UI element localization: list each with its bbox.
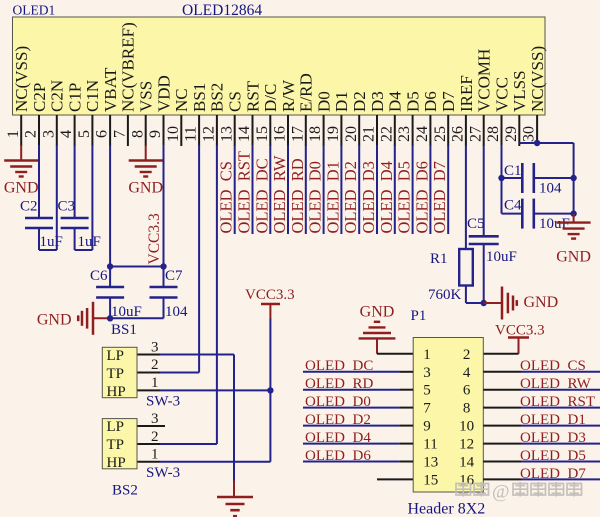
svg-text:13: 13 bbox=[423, 455, 438, 471]
pin 27 stub bbox=[483, 115, 485, 146]
pin 26 stub bbox=[465, 115, 467, 146]
wire pin9 down to C7 bbox=[163, 145, 165, 287]
svg-text:24: 24 bbox=[414, 126, 431, 142]
svg-text:1: 1 bbox=[5, 130, 22, 138]
junction (pin9 rail) bbox=[160, 263, 166, 269]
svg-text:11: 11 bbox=[183, 126, 200, 141]
pin 30 stub bbox=[536, 115, 538, 146]
svg-text:OLED D3: OLED D3 bbox=[359, 161, 378, 233]
svg-text:GND: GND bbox=[37, 312, 72, 329]
wire pin 13 net bbox=[234, 145, 236, 234]
wire C1 right bbox=[534, 177, 574, 179]
svg-text:OLED RD: OLED RD bbox=[288, 158, 307, 233]
watermark zhihu bbox=[455, 482, 582, 497]
ground GND (pin 8) bbox=[145, 145, 147, 161]
svg-text:OLED RST: OLED RST bbox=[520, 394, 595, 410]
svg-text:4: 4 bbox=[58, 130, 75, 138]
svg-text:OLED D5: OLED D5 bbox=[520, 448, 586, 464]
wire pin6 down to C6 bbox=[109, 145, 111, 287]
wire P1 right row 7 bbox=[483, 461, 521, 463]
svg-text:SW-3: SW-3 bbox=[146, 394, 180, 410]
svg-text:OLED D7: OLED D7 bbox=[430, 161, 449, 233]
wire C4 left bbox=[502, 213, 523, 215]
svg-text:10: 10 bbox=[459, 419, 474, 435]
wire pin4 down bbox=[74, 145, 76, 218]
svg-text:GND: GND bbox=[360, 304, 395, 321]
wire P1 right row 5 bbox=[483, 425, 521, 427]
svg-text:BS1: BS1 bbox=[111, 322, 137, 338]
wire pin 21 net bbox=[376, 145, 378, 234]
svg-text:12: 12 bbox=[201, 126, 218, 142]
svg-text:C2N: C2N bbox=[48, 80, 67, 112]
svg-text:11: 11 bbox=[423, 437, 437, 453]
svg-text:2: 2 bbox=[463, 347, 471, 363]
svg-text:13: 13 bbox=[218, 126, 235, 142]
svg-text:4: 4 bbox=[463, 365, 471, 381]
pin 11 stub bbox=[198, 115, 200, 146]
svg-text:1: 1 bbox=[423, 347, 431, 363]
svg-text:OLED DC: OLED DC bbox=[252, 158, 271, 233]
svg-text:26: 26 bbox=[450, 126, 467, 142]
pin 19 stub bbox=[340, 115, 342, 146]
wire pin 23 net bbox=[412, 145, 414, 234]
pin 8 stub bbox=[145, 115, 147, 146]
ground GND (bottom, BS LP net) bbox=[217, 496, 253, 499]
wire P1 pin1 bbox=[377, 353, 413, 355]
svg-text:D2: D2 bbox=[350, 91, 369, 112]
capacitor C3 bbox=[61, 217, 89, 220]
svg-text:GND: GND bbox=[524, 294, 559, 311]
resistor R1 bbox=[459, 249, 473, 286]
svg-text:OLED D7: OLED D7 bbox=[520, 466, 586, 482]
wire C6 bottom bbox=[109, 298, 111, 319]
svg-text:D0: D0 bbox=[314, 91, 333, 112]
svg-text:TP: TP bbox=[107, 366, 125, 382]
svg-text:NC(VSS): NC(VSS) bbox=[12, 46, 31, 112]
wire pin 18 net bbox=[323, 145, 325, 234]
wire C3 bottom to pin5 bbox=[74, 228, 76, 250]
pin 1 stub bbox=[20, 115, 22, 146]
svg-text:1uF: 1uF bbox=[40, 234, 63, 250]
svg-text:16: 16 bbox=[272, 126, 289, 142]
svg-text:OLED D0: OLED D0 bbox=[306, 161, 325, 233]
svg-text:OLED CS: OLED CS bbox=[520, 358, 586, 374]
svg-text:15: 15 bbox=[423, 472, 438, 488]
svg-text:12: 12 bbox=[459, 437, 474, 453]
wire P1 left row 2 bbox=[303, 371, 400, 373]
svg-text:VCC3.3: VCC3.3 bbox=[146, 213, 163, 264]
wire pin3 down bbox=[56, 145, 58, 250]
svg-text:GND: GND bbox=[128, 180, 163, 197]
svg-text:Header 8X2: Header 8X2 bbox=[408, 501, 486, 517]
wire rail pin6-pin9 bbox=[110, 266, 163, 268]
svg-text:17: 17 bbox=[289, 126, 306, 142]
svg-text:C2: C2 bbox=[20, 199, 38, 215]
pin 23 stub bbox=[412, 115, 414, 146]
wire P1 right row 4 bbox=[483, 407, 521, 409]
wire right rail down bbox=[573, 143, 575, 214]
wire P1 right row 6 bbox=[483, 443, 521, 445]
svg-text:1: 1 bbox=[151, 375, 159, 391]
svg-text:P1: P1 bbox=[411, 308, 427, 324]
wire C7 bottom bbox=[163, 298, 165, 319]
pin 4 stub bbox=[74, 115, 76, 146]
svg-text:OLED D5: OLED D5 bbox=[395, 161, 414, 233]
svg-text:VCC: VCC bbox=[492, 77, 511, 112]
junction R1/C5 bbox=[481, 300, 487, 306]
pin 6 stub bbox=[109, 115, 111, 146]
wire P1 left row 7 bbox=[303, 461, 400, 463]
svg-text:NC: NC bbox=[172, 88, 191, 112]
svg-text:9: 9 bbox=[423, 419, 431, 435]
wire pin 24 net bbox=[429, 145, 431, 234]
svg-text:CS: CS bbox=[226, 91, 245, 112]
wire BS1 HP / VCC3.3 bbox=[160, 389, 270, 391]
junction C4 right bbox=[570, 210, 576, 216]
wire pin 16 net bbox=[287, 145, 289, 234]
wire pin26 to R1 bbox=[465, 145, 467, 249]
svg-text:OLED D2: OLED D2 bbox=[305, 412, 371, 428]
wire P1 left row 6 bbox=[303, 443, 400, 445]
wire pin29/30 rail bbox=[519, 142, 573, 144]
svg-text:R1: R1 bbox=[430, 251, 448, 267]
svg-text:18: 18 bbox=[307, 126, 324, 142]
header P1 body bbox=[413, 338, 483, 493]
ground GND (pin 1) bbox=[20, 145, 22, 161]
svg-text:C1: C1 bbox=[504, 163, 522, 179]
svg-text:VLSS: VLSS bbox=[510, 70, 529, 112]
pin 10 stub bbox=[180, 115, 182, 146]
svg-text:C7: C7 bbox=[165, 268, 183, 284]
svg-text:3: 3 bbox=[40, 130, 57, 138]
svg-text:C4: C4 bbox=[504, 198, 522, 214]
svg-text:OLED RW: OLED RW bbox=[270, 155, 289, 233]
capacitor C4 bbox=[521, 199, 524, 229]
wire pin28 down bbox=[501, 145, 503, 214]
pin 22 stub bbox=[394, 115, 396, 146]
svg-text:OLED CS: OLED CS bbox=[217, 161, 236, 233]
svg-text:10uF: 10uF bbox=[486, 249, 517, 265]
capacitor C5 bbox=[469, 235, 499, 238]
junction pin30 bbox=[534, 140, 540, 146]
wire pin2 down bbox=[38, 145, 40, 218]
wire pin11 to BS1 TP bbox=[198, 145, 200, 373]
wire pin5 down bbox=[91, 145, 93, 250]
pin 5 stub bbox=[91, 115, 93, 146]
svg-text:C5: C5 bbox=[467, 216, 485, 232]
wire to left ground bbox=[93, 317, 110, 319]
svg-text:6: 6 bbox=[463, 383, 471, 399]
svg-text:2: 2 bbox=[23, 130, 40, 138]
wire P1 left row 5 bbox=[303, 425, 400, 427]
svg-text:LP: LP bbox=[107, 419, 125, 435]
svg-text:D3: D3 bbox=[368, 91, 387, 112]
wire BS2 LP stub bbox=[137, 425, 165, 427]
pin 21 stub bbox=[376, 115, 378, 146]
svg-text:HP: HP bbox=[107, 455, 126, 471]
wire BS1 LP to ground bbox=[160, 354, 234, 356]
svg-text:@: @ bbox=[492, 482, 510, 503]
ground GND (left of C6) bbox=[92, 302, 95, 335]
wire P1 left row 4 bbox=[303, 407, 400, 409]
svg-text:OLED RD: OLED RD bbox=[305, 376, 373, 392]
svg-text:C6: C6 bbox=[90, 268, 108, 284]
pin 7 stub bbox=[127, 115, 129, 146]
svg-text:14: 14 bbox=[236, 126, 253, 142]
wire pin12 to BS2 TP bbox=[216, 145, 218, 444]
pin 17 stub bbox=[305, 115, 307, 146]
wire P1 right row 8 bbox=[483, 478, 521, 480]
junction (gnd rail) bbox=[107, 315, 113, 321]
svg-text:23: 23 bbox=[396, 126, 413, 142]
svg-text:760K: 760K bbox=[428, 287, 462, 303]
wire pin 22 net bbox=[394, 145, 396, 234]
ground GND (right rail) bbox=[573, 214, 575, 223]
wire C1 left bbox=[502, 177, 523, 179]
svg-text:NC(VBREF): NC(VBREF) bbox=[119, 22, 138, 112]
svg-text:OLED12864: OLED12864 bbox=[182, 2, 262, 19]
svg-text:6: 6 bbox=[94, 130, 111, 138]
pin 28 stub bbox=[501, 115, 503, 146]
svg-text:5: 5 bbox=[423, 383, 431, 399]
switch BS2 body bbox=[102, 419, 137, 469]
svg-text:NC(VSS): NC(VSS) bbox=[528, 46, 547, 112]
svg-text:OLED1: OLED1 bbox=[13, 3, 56, 18]
svg-text:8: 8 bbox=[463, 401, 471, 417]
svg-text:30: 30 bbox=[521, 126, 538, 142]
wire gnd rail bbox=[110, 317, 163, 319]
pin 2 stub bbox=[38, 115, 40, 146]
svg-text:20: 20 bbox=[343, 126, 360, 142]
svg-text:OLED RST: OLED RST bbox=[235, 151, 254, 234]
svg-text:D7: D7 bbox=[439, 91, 458, 112]
svg-text:VSS: VSS bbox=[137, 81, 156, 112]
svg-text:OLED D6: OLED D6 bbox=[412, 161, 431, 233]
svg-text:GND: GND bbox=[4, 180, 39, 197]
junction C1 right bbox=[570, 175, 576, 181]
svg-text:GND: GND bbox=[556, 249, 591, 266]
svg-text:14: 14 bbox=[459, 455, 475, 471]
svg-text:OLED D4: OLED D4 bbox=[377, 161, 396, 233]
svg-text:25: 25 bbox=[432, 126, 449, 142]
svg-text:1uF: 1uF bbox=[78, 234, 101, 250]
wire pin 15 net bbox=[269, 145, 271, 234]
connector OLED1 body bbox=[13, 17, 546, 115]
svg-text:7: 7 bbox=[423, 401, 431, 417]
svg-text:C3: C3 bbox=[58, 199, 76, 215]
wire pin 20 net bbox=[358, 145, 360, 234]
svg-text:C1N: C1N bbox=[83, 80, 102, 112]
wire pin 19 net bbox=[340, 145, 342, 234]
svg-text:3: 3 bbox=[151, 411, 159, 427]
pin 29 stub bbox=[518, 115, 520, 146]
junction pin28/C1 bbox=[498, 175, 504, 181]
svg-text:OLED D0: OLED D0 bbox=[305, 394, 371, 410]
pin 13 stub bbox=[234, 115, 236, 146]
svg-text:OLED RW: OLED RW bbox=[520, 376, 592, 392]
svg-text:2: 2 bbox=[151, 429, 159, 445]
svg-text:HP: HP bbox=[107, 384, 126, 400]
svg-text:D6: D6 bbox=[421, 91, 440, 112]
wire to right ground bbox=[484, 302, 502, 304]
svg-text:BS2: BS2 bbox=[112, 483, 138, 499]
pin 18 stub bbox=[323, 115, 325, 146]
svg-text:VCC3.3: VCC3.3 bbox=[495, 323, 545, 339]
svg-text:104: 104 bbox=[539, 181, 562, 197]
pin 14 stub bbox=[252, 115, 254, 146]
ground GND (right of R1) bbox=[501, 287, 504, 320]
svg-text:D/C: D/C bbox=[261, 84, 280, 112]
wire BS2 HP bbox=[160, 461, 270, 463]
svg-text:VCOMH: VCOMH bbox=[475, 49, 494, 112]
svg-text:OLED DC: OLED DC bbox=[305, 358, 373, 374]
pin 25 stub bbox=[447, 115, 449, 146]
svg-text:OLED D1: OLED D1 bbox=[323, 161, 342, 233]
wire pin 25 net bbox=[447, 145, 449, 234]
capacitor C7 bbox=[150, 286, 178, 289]
wire C2 bottom to pin3 bbox=[38, 228, 40, 250]
svg-text:28: 28 bbox=[485, 126, 502, 142]
svg-text:RST: RST bbox=[243, 80, 262, 112]
wire P1 right row 3 bbox=[483, 389, 521, 391]
svg-text:OLED D6: OLED D6 bbox=[305, 448, 371, 464]
svg-text:D1: D1 bbox=[332, 91, 351, 112]
svg-text:OLED D1: OLED D1 bbox=[520, 412, 586, 428]
wire P1 right row 2 bbox=[483, 371, 521, 373]
pin 12 stub bbox=[216, 115, 218, 146]
svg-text:19: 19 bbox=[325, 126, 342, 142]
svg-text:OLED D4: OLED D4 bbox=[305, 430, 371, 446]
wire P1 left row 3 bbox=[303, 389, 400, 391]
svg-text:3: 3 bbox=[151, 339, 159, 355]
svg-text:27: 27 bbox=[467, 126, 484, 142]
svg-text:7: 7 bbox=[112, 130, 129, 138]
pin 3 stub bbox=[56, 115, 58, 146]
svg-text:1: 1 bbox=[151, 447, 159, 463]
svg-text:C1P: C1P bbox=[65, 83, 84, 112]
svg-text:21: 21 bbox=[361, 126, 378, 142]
svg-text:E/RD: E/RD bbox=[297, 73, 316, 112]
pin 24 stub bbox=[429, 115, 431, 146]
switch BS1 body bbox=[102, 347, 137, 397]
svg-text:15: 15 bbox=[254, 126, 271, 142]
svg-text:TP: TP bbox=[107, 437, 125, 453]
svg-text:22: 22 bbox=[378, 126, 395, 142]
svg-text:R/W: R/W bbox=[279, 79, 298, 112]
pin 16 stub bbox=[287, 115, 289, 146]
svg-text:104: 104 bbox=[165, 304, 188, 320]
wire C4 right bbox=[534, 213, 574, 215]
junction BS1 HP bbox=[267, 387, 273, 393]
capacitor C2 bbox=[25, 217, 53, 220]
wire P1 pin2 bbox=[483, 353, 518, 355]
capacitor C6 bbox=[96, 286, 124, 289]
wire pin 14 net bbox=[252, 145, 254, 234]
svg-text:2: 2 bbox=[151, 357, 159, 373]
pin 20 stub bbox=[358, 115, 360, 146]
capacitor C1 bbox=[521, 163, 524, 193]
svg-text:VCC3.3: VCC3.3 bbox=[245, 287, 295, 303]
pin 15 stub bbox=[269, 115, 271, 146]
svg-text:IREF: IREF bbox=[457, 75, 476, 112]
svg-text:3: 3 bbox=[423, 365, 431, 381]
wire R1 bottom bbox=[465, 286, 467, 304]
junction (pin6 rail) bbox=[107, 263, 113, 269]
svg-text:29: 29 bbox=[503, 126, 520, 142]
svg-text:BS2: BS2 bbox=[208, 83, 227, 112]
svg-text:5: 5 bbox=[76, 130, 93, 138]
svg-text:BS1: BS1 bbox=[190, 83, 209, 112]
svg-text:10: 10 bbox=[165, 126, 182, 142]
svg-text:D4: D4 bbox=[386, 91, 405, 112]
svg-text:8: 8 bbox=[129, 130, 146, 138]
svg-text:VDD: VDD bbox=[154, 75, 173, 112]
svg-text:OLED D2: OLED D2 bbox=[341, 161, 360, 233]
svg-text:D5: D5 bbox=[403, 91, 422, 112]
svg-text:9: 9 bbox=[147, 130, 164, 138]
pin 9 stub bbox=[163, 115, 165, 146]
svg-text:SW-3: SW-3 bbox=[146, 465, 180, 481]
wire pin27 through C5 bbox=[483, 145, 485, 236]
svg-text:LP: LP bbox=[107, 348, 125, 364]
wire pin 17 net bbox=[305, 145, 307, 234]
svg-text:C2P: C2P bbox=[30, 83, 49, 112]
svg-text:VBAT: VBAT bbox=[101, 67, 120, 112]
svg-text:OLED D3: OLED D3 bbox=[520, 430, 586, 446]
wire P1 pin15 bbox=[377, 478, 413, 480]
